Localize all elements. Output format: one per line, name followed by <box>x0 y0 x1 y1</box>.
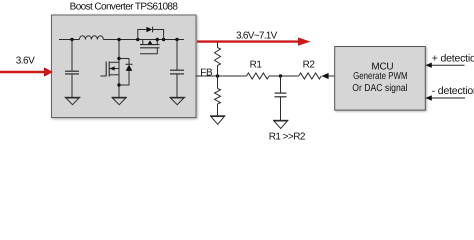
node: feedback divider tap <box>216 74 219 77</box>
inductor L1 <box>79 36 103 40</box>
ground (Q1 source) <box>112 97 128 104</box>
wire: low-side drain/source vertical <box>118 40 120 98</box>
wire: FB net from module <box>196 75 247 77</box>
output arrow VOUT (red) <box>197 37 311 45</box>
svg-text:FB: FB <box>200 67 213 78</box>
ground (feedback divider) <box>210 116 226 125</box>
module box U1 TPS61088 boost converter <box>52 15 197 118</box>
ground (input cap) <box>65 97 81 104</box>
transistor Q2 synchronous rectifier NMOS <box>140 40 160 54</box>
wire: switch node rail <box>103 39 184 41</box>
resistor lower feedback (FB to GND) <box>215 76 221 116</box>
svg-text:R1 >>R2: R1 >>R2 <box>269 132 306 143</box>
node: rectifier source stub <box>156 38 159 41</box>
svg-text:Or DAC signal: Or DAC signal <box>352 83 407 94</box>
svg-text:Boost Converter TPS61088: Boost Converter TPS61088 <box>70 2 179 13</box>
wire: input rail to inductor <box>59 39 79 41</box>
resistor R2 <box>299 73 322 79</box>
node: RC filter tap <box>279 74 282 77</box>
transistor Q1 low-side NMOS <box>100 62 119 77</box>
node: switch rail to Q1 <box>117 38 120 41</box>
wire: input cap top lead <box>71 40 73 72</box>
capacitor C3 (DAC filter) <box>275 76 287 120</box>
node: rectifier loop left <box>136 38 139 41</box>
svg-text:3.6V: 3.6V <box>16 56 35 67</box>
diode D2 body diode of Q2 <box>138 27 164 40</box>
wire: output cap top lead <box>176 40 178 71</box>
node: output cap junction <box>175 38 178 41</box>
wire: output cap bottom lead <box>176 74 178 97</box>
wire: R1 to R2 <box>269 75 299 77</box>
ground (C3) <box>273 120 289 128</box>
node: input cap junction <box>70 38 73 41</box>
MCU box <box>335 47 426 111</box>
arrow from MCU to R2 <box>322 73 336 79</box>
+ detection arrow <box>425 63 464 68</box>
capacitor C2 (output) <box>170 70 184 74</box>
wire: input cap bottom lead <box>71 74 73 97</box>
diode D1 body diode of Q1 <box>119 59 132 86</box>
svg-text:Generate PWM: Generate PWM <box>353 71 407 82</box>
svg-text:3.6V~7.1V: 3.6V~7.1V <box>236 31 278 42</box>
node: Q1 source / D1 anode <box>117 83 120 86</box>
- detection arrow <box>425 95 465 100</box>
svg-text:+ detection: + detection <box>432 53 474 65</box>
node: Q1 drain / D1 cathode <box>117 57 120 60</box>
ground (output cap) <box>170 97 186 104</box>
capacitor C1 (input) <box>65 71 79 74</box>
svg-text:R2: R2 <box>303 59 316 70</box>
resistor upper feedback (VOUT to FB) <box>215 43 221 77</box>
svg-text:R1: R1 <box>250 59 263 70</box>
node: rectifier loop right <box>162 38 165 41</box>
input arrow VIN (red) <box>0 67 53 76</box>
svg-text:- detection: - detection <box>432 85 474 97</box>
label MCU text <box>352 62 407 94</box>
resistor R1 <box>247 73 270 79</box>
